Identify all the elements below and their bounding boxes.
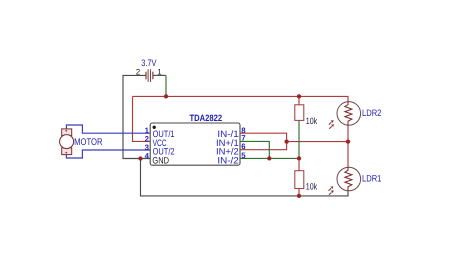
svg-text:TDA2822: TDA2822 <box>190 113 223 123</box>
svg-text:10k: 10k <box>306 182 318 192</box>
wire motor bottom to OUT/2 pin 3 (blue) <box>66 150 150 158</box>
pin name OUT/2 <box>153 146 175 156</box>
resistor R1 10k (upper) <box>295 105 304 121</box>
wire upper resistor top stub (red) <box>298 96 300 105</box>
resistor R2 value 10k <box>306 182 318 192</box>
svg-text:MOTOR: MOTOR <box>74 137 102 148</box>
pin name IN+/2 <box>216 146 239 156</box>
svg-text:6: 6 <box>241 142 246 151</box>
svg-text:LDR2: LDR2 <box>362 108 381 118</box>
junction node lower resistor/bottom rail <box>297 194 301 198</box>
wire upper resistor bottom to divider node (green) <box>298 120 300 158</box>
LDR2 label <box>362 108 381 118</box>
wire motor top to OUT/1 pin 1 (blue) <box>66 125 150 133</box>
pin number 3 <box>145 143 150 152</box>
svg-text:2: 2 <box>136 67 141 76</box>
motor M1 <box>60 129 74 155</box>
wire battery positive stub (black) <box>153 74 166 76</box>
pin name IN-/2 <box>217 155 238 165</box>
wire pin 7 IN+/1 to pin 5 net (green) <box>240 141 269 158</box>
battery pin number 1 <box>157 67 162 76</box>
battery value label 3.7V <box>141 57 157 68</box>
junction node pin8-6/mid-rail <box>284 139 288 143</box>
svg-text:LDR1: LDR1 <box>362 174 381 184</box>
IC title TDA2822 <box>190 113 223 123</box>
pin number 8 <box>241 126 246 135</box>
resistor R1 value 10k <box>306 116 318 126</box>
junction node pin7/pin5 <box>267 156 271 160</box>
svg-text:5: 5 <box>241 151 246 160</box>
pin number 5 <box>241 151 246 160</box>
pin name GND <box>152 155 169 165</box>
motor label MOTOR <box>74 137 102 148</box>
junction node GND <box>138 156 142 160</box>
LDR1 photoresistor <box>329 167 361 195</box>
LDR1 label <box>362 174 381 184</box>
wire VCC branch to pin 2 (red) <box>133 96 151 141</box>
op-amp IC U1 TDA2822 body <box>150 123 240 165</box>
junction node top-rail/upper resistor <box>297 94 301 98</box>
junction node mid-rail/LDR column <box>346 139 350 143</box>
wire battery negative to GND net (black) <box>123 75 150 158</box>
pin number 7 <box>241 134 245 143</box>
wire top rail VCC (red) <box>133 96 349 101</box>
svg-text:10k: 10k <box>306 116 318 126</box>
wire battery positive down to top rail (green) <box>165 75 167 96</box>
svg-text:IN-/2: IN-/2 <box>217 155 238 165</box>
pin name VCC <box>153 138 167 148</box>
svg-text:4: 4 <box>145 151 150 160</box>
svg-text:3.7V: 3.7V <box>141 57 157 68</box>
wire pin 8 IN-/1 to pin 6 IN+/2 (red) <box>240 133 287 150</box>
pin name IN+/1 <box>216 138 239 148</box>
battery BT1 3.7V <box>146 69 153 82</box>
pin number 6 <box>241 142 246 151</box>
pin number 2 <box>145 134 150 143</box>
IC pin-1 marker dot <box>153 126 156 129</box>
pin name IN-/1 <box>217 129 238 139</box>
wire mid rail to LDRs (red) <box>287 125 348 167</box>
pin name OUT/1 <box>153 129 175 139</box>
svg-text:GND: GND <box>152 155 169 165</box>
wire pin 5 IN-/2 to divider node (green) <box>240 157 299 159</box>
LDR2 photoresistor <box>329 102 361 129</box>
wire lower resistor stubs (red) <box>298 158 300 196</box>
battery pin number 2 <box>136 67 141 76</box>
svg-text:1: 1 <box>157 67 162 76</box>
pin number 4 <box>145 151 150 160</box>
junction node battery/top-rail <box>164 94 168 98</box>
wire GND down to bottom rail (black) <box>141 159 349 196</box>
resistor R2 10k (lower) <box>295 171 304 189</box>
pin number 1 <box>145 126 150 135</box>
junction node pin5/divider <box>297 156 301 160</box>
